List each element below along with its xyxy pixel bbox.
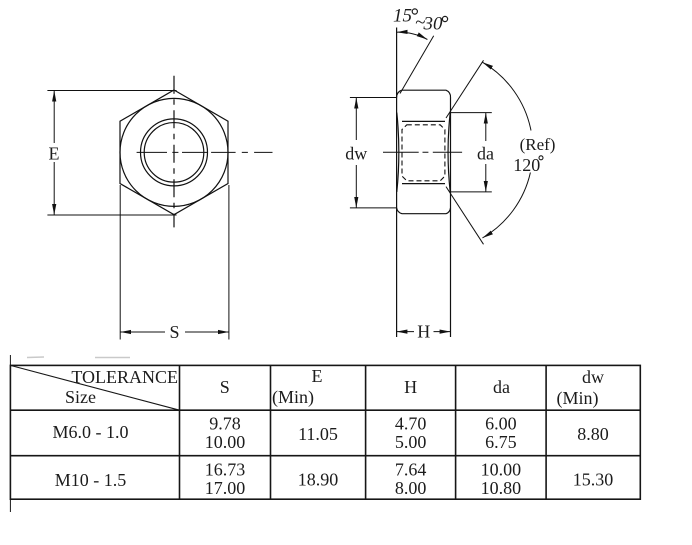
dw bottom extension line — [350, 207, 397, 209]
dimension H — [396, 331, 450, 333]
nut top edge with corner chamfer arcs — [397, 90, 451, 97]
svg-text:11.05: 11.05 — [298, 424, 338, 444]
120 degree arc lower part — [482, 173, 530, 239]
svg-text:5.00: 5.00 — [395, 432, 427, 452]
dw top extension line — [350, 97, 397, 99]
svg-text:E: E — [49, 144, 60, 164]
data row line — [10, 455, 640, 457]
column line 1 — [179, 365, 181, 499]
upper 120 extension line — [446, 60, 484, 118]
column line 3 — [365, 365, 367, 499]
thread outer circle — [141, 119, 208, 186]
table outer border — [10, 365, 640, 499]
svg-text:S: S — [169, 322, 179, 342]
svg-text:17.00: 17.00 — [205, 478, 246, 498]
hidden hole (dashed) — [402, 125, 445, 181]
svg-text:E: E — [312, 366, 323, 386]
upper hex edge line — [402, 120, 445, 122]
svg-text:da: da — [493, 377, 510, 397]
chamfer angle annotation 15~30 — [397, 32, 434, 93]
svg-text:Size: Size — [65, 387, 96, 407]
E dimension line upper — [53, 91, 55, 144]
svg-text:10.00: 10.00 — [205, 432, 246, 452]
svg-text:M10 - 1.5: M10 - 1.5 — [55, 470, 127, 490]
lower hex edge line — [402, 183, 445, 185]
svg-text:15: 15 — [393, 6, 412, 27]
svg-text:15.30: 15.30 — [573, 470, 614, 490]
E top extension line — [47, 90, 176, 92]
S dimension line right — [185, 331, 229, 333]
dimension E — [47, 91, 176, 216]
left face chamfer arc — [397, 113, 399, 192]
svg-text:(Min): (Min) — [557, 388, 599, 409]
svg-text:H: H — [417, 322, 430, 342]
svg-text:(Min): (Min) — [272, 387, 314, 408]
chamfer angle slanted line — [400, 36, 434, 94]
dw dimension line lower — [355, 165, 357, 208]
left border tick below — [9, 499, 11, 512]
da top extension line — [451, 112, 492, 114]
thread inner circle — [144, 123, 204, 183]
svg-text:7.64: 7.64 — [395, 460, 427, 480]
dimension dw — [350, 98, 397, 208]
svg-text:dw: dw — [582, 367, 604, 387]
svg-text:6.75: 6.75 — [485, 432, 517, 452]
da bottom extension line — [451, 191, 492, 193]
svg-text:S: S — [220, 377, 230, 397]
dimension da — [451, 113, 492, 192]
vertical centerline — [173, 76, 175, 228]
hexagon outline — [120, 90, 228, 215]
120 degree reference annotation — [446, 60, 531, 244]
svg-text:16.73: 16.73 — [205, 460, 246, 480]
chamfer angle arc — [397, 32, 428, 39]
column line 2 — [270, 365, 272, 499]
H dimension line right — [434, 331, 451, 333]
svg-text:8.80: 8.80 — [577, 424, 609, 444]
dimension S — [120, 185, 229, 340]
svg-text:9.78: 9.78 — [209, 414, 241, 434]
svg-text:da: da — [477, 144, 494, 164]
S right extension line — [228, 185, 230, 340]
chamfer circle (inscribed) — [120, 98, 228, 206]
nut bottom edge with corner chamfer arcs — [397, 208, 451, 214]
header diagonal line — [10, 365, 179, 410]
svg-text:10.80: 10.80 — [481, 478, 522, 498]
svg-text:4.70: 4.70 — [395, 414, 427, 434]
chamfer angle label 15~30 — [393, 6, 443, 35]
left border tick above — [9, 355, 11, 365]
E dimension line lower — [53, 162, 55, 215]
lower 120 extension line — [446, 187, 484, 245]
svg-text:18.90: 18.90 — [298, 470, 339, 490]
side view centerline — [383, 151, 462, 153]
svg-text:10.00: 10.00 — [481, 460, 522, 480]
120 degree small circle — [539, 156, 543, 160]
120 degree arc upper part — [482, 62, 531, 130]
faint scan smudges above table — [27, 356, 130, 359]
svg-text:30: 30 — [423, 14, 444, 35]
svg-text:(Ref): (Ref) — [520, 135, 556, 154]
nut right edge + H extension line — [450, 98, 452, 338]
H dimension line left — [396, 331, 414, 333]
da dimension line lower — [485, 164, 487, 192]
column line 4 — [455, 365, 457, 499]
S left extension line — [119, 185, 121, 340]
E bottom extension line — [47, 214, 176, 216]
da dimension line upper — [485, 113, 487, 141]
svg-text:6.00: 6.00 — [485, 414, 517, 434]
horizontal centerline — [137, 151, 273, 153]
svg-text:H: H — [404, 377, 417, 397]
header row line — [10, 409, 640, 411]
column line 5 — [545, 365, 547, 499]
svg-text:120: 120 — [513, 155, 540, 175]
dw dimension line upper — [355, 98, 357, 141]
right face chamfer arc — [448, 113, 450, 192]
nut left edge + extension lines — [396, 28, 398, 338]
svg-text:dw: dw — [345, 144, 367, 164]
svg-text:M6.0 - 1.0: M6.0 - 1.0 — [53, 422, 129, 442]
svg-text:8.00: 8.00 — [395, 478, 427, 498]
S dimension line left — [120, 331, 165, 333]
svg-text:TOLERANCE: TOLERANCE — [71, 367, 178, 387]
